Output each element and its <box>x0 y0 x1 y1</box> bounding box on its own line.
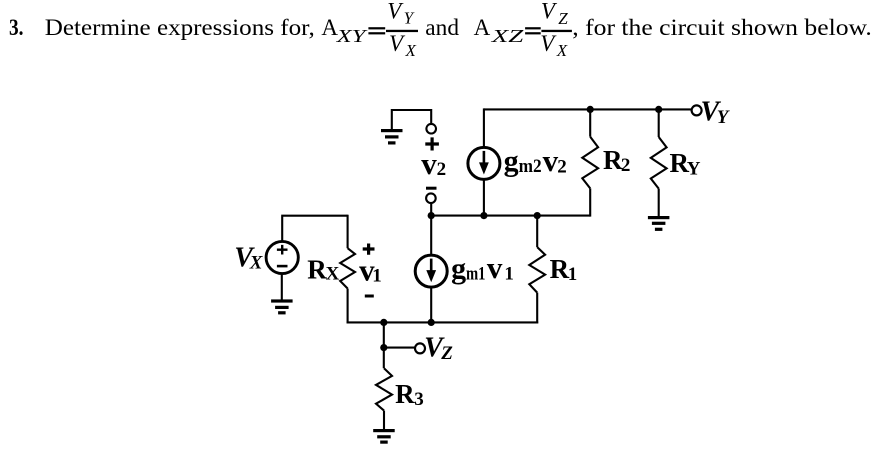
current source U1 gm1v1 <box>415 255 447 287</box>
gain symbol A_XZ <box>474 15 524 46</box>
terminal VZ circle <box>415 343 425 353</box>
svg-text:R: R <box>307 254 327 284</box>
svg-text:V: V <box>540 31 557 56</box>
junction dot bottom bus gm1v1 <box>428 319 435 326</box>
gain symbol A_XY <box>321 15 368 46</box>
label gm1v1 <box>451 250 514 285</box>
label R2 <box>603 145 630 176</box>
label v1 <box>359 253 382 288</box>
svg-text:Z: Z <box>440 343 453 364</box>
junction dot R2 top <box>587 106 594 113</box>
svg-text:g: g <box>504 145 519 178</box>
svg-text:V: V <box>541 0 558 23</box>
svg-text:1: 1 <box>372 266 382 287</box>
svg-text:and: and <box>425 15 459 40</box>
wire VX source to ground <box>281 274 283 300</box>
svg-text:Determine expressions for,: Determine expressions for, <box>45 15 315 40</box>
problem statement: Determine expressions for, <box>45 15 315 40</box>
wire VX source top <box>281 216 347 242</box>
resistor RY <box>651 137 667 189</box>
wire middle bus <box>430 215 590 217</box>
v2 plus sign <box>425 137 439 150</box>
wire VZ tap vertical <box>383 322 385 347</box>
svg-text:v: v <box>421 146 437 181</box>
svg-text:R: R <box>550 254 570 284</box>
wire ground to v2 plus terminal horizontal <box>392 109 431 111</box>
wire top bus <box>484 108 692 110</box>
wire RY bottom to ground <box>658 189 660 217</box>
wire gm1v1 top <box>430 216 432 256</box>
junction dot RY top <box>655 106 662 113</box>
terminal v2 minus circle <box>426 193 436 203</box>
label R3 <box>395 379 424 410</box>
svg-text:R: R <box>395 379 415 409</box>
wire v2 plus terminal drop <box>430 109 432 124</box>
svg-text:2: 2 <box>621 155 631 176</box>
label VX <box>234 242 264 273</box>
resistor R2 <box>582 137 598 189</box>
wire RY top <box>658 108 660 137</box>
resistor R3 <box>376 368 392 410</box>
svg-text:X: X <box>249 252 264 273</box>
label VY <box>701 96 731 128</box>
svg-text:XZ: XZ <box>490 26 523 46</box>
svg-text:3: 3 <box>414 389 424 410</box>
equals sign 2 <box>525 27 541 34</box>
wire ground riser top-left <box>391 109 393 129</box>
label RX <box>307 254 339 284</box>
svg-text:2: 2 <box>437 159 447 180</box>
fraction V_Y over V_X denominator <box>389 31 417 60</box>
ground symbol top-left <box>381 129 403 145</box>
wire RX bottom <box>347 289 349 324</box>
svg-text:V: V <box>387 0 404 23</box>
wire R2 top <box>589 108 591 136</box>
svg-text:1: 1 <box>568 264 578 285</box>
svg-text:V: V <box>389 31 406 56</box>
wire v2 minus to middle bus <box>430 203 432 216</box>
svg-text:Y: Y <box>717 107 731 128</box>
wire gm2v2 top <box>483 108 485 147</box>
terminal v2 plus circle <box>426 124 436 134</box>
current source U2 gm2v2 <box>468 147 500 179</box>
v1 plus sign <box>363 244 375 255</box>
svg-text:XY: XY <box>335 26 368 46</box>
svg-text:v: v <box>543 143 559 178</box>
svg-text:v: v <box>487 250 503 285</box>
junction dot VZ node <box>380 344 387 351</box>
voltage source VX <box>266 241 298 273</box>
wire bottom bus <box>347 321 539 323</box>
svg-text:1: 1 <box>504 264 514 285</box>
problem statement: for the circuit shown below. <box>572 15 872 40</box>
v2 minus sign <box>426 187 437 190</box>
junction dot bottom bus VZ tap <box>380 319 387 326</box>
svg-text:X: X <box>405 41 417 60</box>
wire R3 top <box>383 348 385 369</box>
fraction V_Z over V_X numerator <box>541 0 568 28</box>
fraction V_Y over V_X numerator <box>387 0 414 27</box>
ground symbol RY <box>648 216 670 231</box>
ground symbol VX <box>271 299 293 314</box>
ground symbol R3 <box>373 429 395 444</box>
wire RX top <box>347 215 349 249</box>
resistor RX <box>340 248 355 288</box>
svg-text:Y: Y <box>404 8 415 27</box>
fraction V_Z over V_X denominator <box>540 31 568 60</box>
problem statement: item number 3. <box>9 15 24 40</box>
svg-text:A: A <box>474 15 491 40</box>
svg-text:3.: 3. <box>9 15 24 40</box>
label VZ <box>424 332 453 363</box>
label RY <box>670 148 701 179</box>
wire R3 bottom to ground <box>383 411 385 430</box>
label gm2v2 <box>504 143 567 178</box>
svg-text:, for the circuit shown below.: , for the circuit shown below. <box>572 15 872 40</box>
terminal VY circle <box>692 105 702 115</box>
wire R1 bottom <box>536 293 538 324</box>
label R1 <box>550 254 578 285</box>
svg-text:X: X <box>556 41 568 60</box>
resistor R1 <box>529 247 545 293</box>
fraction bar 2 <box>541 30 572 32</box>
wire R1 top <box>536 216 538 248</box>
svg-text:X: X <box>326 264 340 285</box>
svg-text:m2: m2 <box>519 156 542 177</box>
svg-text:Z: Z <box>558 9 568 28</box>
svg-text:Y: Y <box>687 158 701 179</box>
fraction bar 1 <box>386 30 418 32</box>
junction dot middle bus v2 <box>428 212 435 219</box>
svg-text:2: 2 <box>557 156 567 177</box>
problem statement: and <box>425 15 459 40</box>
v1 minus sign <box>365 295 374 298</box>
wire gm1v1 bottom <box>430 287 432 323</box>
junction dot middle bus gm2v2 <box>480 212 487 219</box>
label v2 <box>421 146 446 181</box>
wire VZ tap horizontal <box>384 347 415 349</box>
svg-text:g: g <box>451 252 466 285</box>
wire gm2v2 bottom <box>483 179 485 216</box>
junction dot middle bus R1 <box>534 212 541 219</box>
svg-text:m1: m1 <box>466 263 486 284</box>
wire R2 bottom <box>589 188 591 216</box>
equals sign 1 <box>368 27 385 34</box>
